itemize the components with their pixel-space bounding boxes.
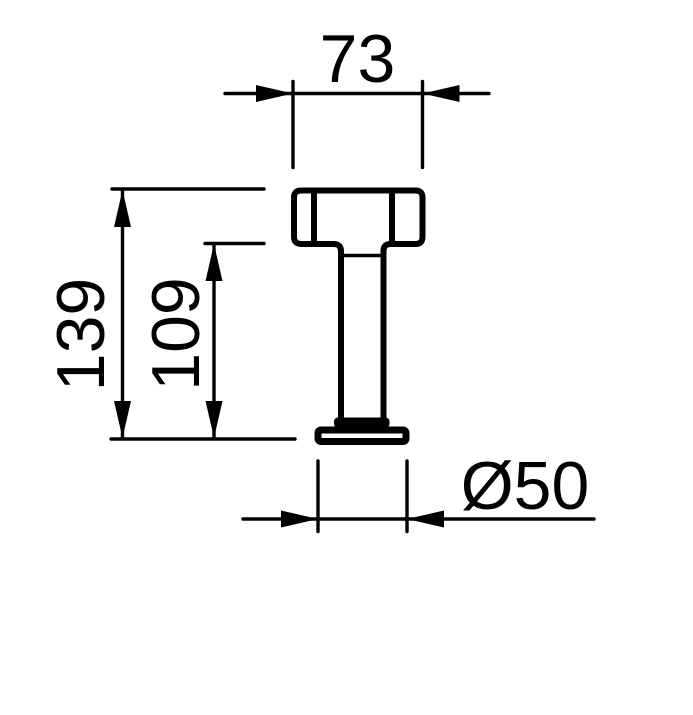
dim 73 left extension line <box>291 82 294 168</box>
dim 50 dimension line <box>243 517 594 520</box>
dim 139 dimension line <box>121 190 124 438</box>
dim 139/109 bottom extension line <box>111 437 295 440</box>
dim 109 dimension line <box>212 244 215 438</box>
stem bottom collar <box>336 420 388 427</box>
arrowhead 139 top <box>114 190 131 227</box>
cap left divider line <box>311 191 317 245</box>
arrowhead 50 right <box>407 511 444 528</box>
dim 73 right extension line <box>421 82 424 168</box>
base plate <box>318 430 406 442</box>
svg-text:139: 139 <box>43 278 119 391</box>
arrowhead 73 right <box>423 85 460 102</box>
svg-text:109: 109 <box>138 277 214 390</box>
dim 50 right extension line <box>405 461 408 532</box>
stem joint line <box>341 254 384 258</box>
arrowhead 109 top <box>206 244 223 281</box>
svg-text:Ø50: Ø50 <box>461 448 590 524</box>
dim 139 top extension line <box>112 187 264 190</box>
arrowhead 73 left <box>256 85 293 102</box>
dim 73 dimension line <box>225 92 489 95</box>
faucet handle cap and stem outline <box>294 191 423 418</box>
arrowhead 50 left <box>281 511 318 528</box>
cap right divider line <box>389 191 395 245</box>
svg-text:73: 73 <box>320 21 396 97</box>
arrowhead 139 bottom <box>114 401 131 438</box>
arrowhead 109 bottom <box>206 401 223 438</box>
dim 50 left extension line <box>316 461 319 532</box>
dim 109 top extension line <box>205 242 264 245</box>
